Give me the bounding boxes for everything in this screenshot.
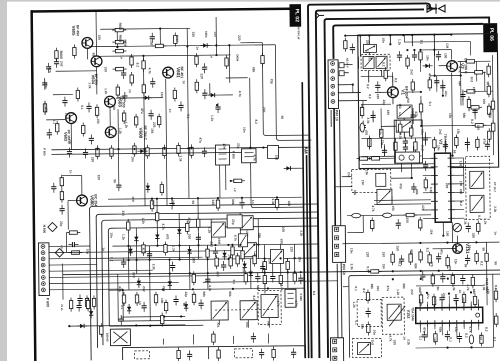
wire: [206, 245, 208, 289]
capacitor: [221, 261, 226, 271]
wire: [412, 108, 414, 124]
capacitor: [375, 81, 380, 91]
svg-text:47u: 47u: [59, 245, 63, 251]
junction: [241, 197, 243, 199]
svg-text:56: 56: [482, 247, 486, 251]
value label: [202, 292, 206, 298]
wire: [426, 302, 428, 304]
wire: [63, 270, 500, 275]
junction: [448, 293, 450, 295]
svg-text:C604: C604: [204, 31, 208, 38]
svg-text:470: 470: [44, 107, 48, 113]
svg-text:330: 330: [68, 139, 72, 145]
inductor: [469, 335, 473, 344]
svg-text:68k: 68k: [231, 199, 235, 205]
value label: [456, 129, 460, 135]
value label: [109, 232, 113, 238]
wire: [52, 152, 242, 154]
value label: [280, 116, 284, 120]
wire: [477, 299, 479, 303]
junction: [227, 258, 229, 260]
capacitor: [215, 103, 220, 113]
junction: [168, 258, 170, 260]
wire: [403, 132, 405, 138]
svg-text:8.2: 8.2: [470, 119, 474, 124]
wire: [121, 315, 185, 318]
value label: [121, 210, 125, 216]
value label: [367, 56, 371, 62]
junction: [163, 316, 165, 318]
svg-text:220: 220: [152, 122, 156, 128]
capacitor: [196, 233, 201, 243]
resistor: [177, 347, 181, 361]
filter F601: [241, 149, 256, 163]
tunable coil: [240, 301, 257, 320]
value label: [425, 248, 429, 253]
value label: [200, 74, 204, 80]
wire: [421, 124, 493, 127]
value label: [362, 288, 366, 293]
value label: [425, 55, 429, 61]
junction: [420, 91, 422, 93]
wire: [451, 222, 453, 242]
junction: [368, 34, 370, 36]
resistor: [150, 198, 154, 212]
connector PL06: [483, 23, 497, 52]
svg-text:1.2k: 1.2k: [121, 234, 125, 240]
resistor R605: [112, 40, 126, 44]
tunable coil: [240, 216, 253, 230]
value label: [406, 339, 410, 345]
svg-text:15k: 15k: [456, 129, 460, 135]
junction: [433, 49, 435, 51]
value label: [160, 92, 164, 98]
capacitor: [403, 137, 408, 147]
label V2: [460, 63, 465, 69]
resistor: [473, 293, 477, 307]
wire: [423, 209, 431, 211]
value label: [110, 257, 114, 262]
svg-text:1.2k: 1.2k: [207, 227, 211, 233]
wire: [368, 35, 370, 54]
svg-text:220: 220: [97, 175, 101, 181]
transistor V603: [104, 96, 115, 107]
svg-text:100: 100: [281, 227, 285, 233]
svg-text:8.2: 8.2: [459, 201, 463, 206]
capacitor: [440, 82, 445, 92]
svg-text:68k: 68k: [252, 67, 256, 73]
junction: [250, 272, 252, 274]
value label: [187, 217, 191, 223]
svg-text:470: 470: [279, 239, 283, 245]
svg-text:AT1: AT1: [216, 322, 220, 328]
wire: [109, 107, 111, 126]
resistor: [472, 124, 486, 128]
label AO1: [245, 322, 249, 328]
resistor: [455, 135, 459, 149]
svg-text:220: 220: [200, 74, 204, 80]
value label: [289, 247, 293, 253]
value label: [152, 264, 156, 270]
svg-text:10n: 10n: [109, 232, 113, 238]
op-amp U1 IC V3 TBA570A: [431, 153, 456, 222]
value label: [492, 337, 496, 342]
resistor: [494, 313, 498, 327]
resistor: [155, 210, 159, 224]
wire: [49, 251, 244, 253]
wire: [84, 45, 275, 47]
value label: [429, 229, 433, 235]
value label: [161, 223, 165, 229]
resistor: [160, 182, 164, 196]
junction: [187, 147, 189, 149]
value label: [210, 115, 214, 121]
wire bus AM a: [302, 82, 305, 358]
antenna FM dipole: [427, 4, 445, 14]
value label: [410, 249, 414, 255]
resistor: [192, 291, 196, 305]
svg-text:330: 330: [386, 110, 390, 116]
label V152: [406, 310, 410, 319]
svg-text:2n2: 2n2: [370, 340, 374, 346]
resistor: [419, 249, 423, 263]
scan edge left: [0, 0, 7, 361]
junction: [392, 270, 394, 272]
resistor: [96, 145, 100, 159]
junction: [169, 272, 171, 274]
svg-text:150: 150: [104, 67, 108, 73]
svg-text:68k: 68k: [472, 289, 476, 295]
wire: [95, 55, 230, 56]
junction: [171, 197, 173, 199]
value label: [494, 261, 498, 265]
svg-text:10n: 10n: [372, 330, 376, 336]
wire: [492, 55, 493, 155]
svg-text:4.7k: 4.7k: [208, 285, 212, 291]
junction: [419, 242, 421, 244]
shield box: [466, 156, 491, 219]
label V603: [117, 96, 122, 107]
value label: [242, 267, 246, 273]
resistor: [116, 84, 120, 98]
svg-text:470: 470: [165, 234, 169, 240]
capacitor: [423, 161, 428, 171]
junction: [426, 292, 428, 294]
value label: [148, 68, 152, 74]
resistor: [394, 139, 398, 153]
svg-text:P/N 50: P/N 50: [342, 264, 346, 275]
wire: [49, 264, 96, 266]
svg-text:4.7k: 4.7k: [118, 286, 122, 292]
value label: [198, 137, 202, 143]
box F606: [267, 145, 278, 158]
wire: [463, 297, 465, 303]
value label: [420, 145, 424, 151]
value label: [467, 245, 471, 251]
resistor: [217, 347, 221, 361]
op-amp U2 IC V152 TDA1046: [416, 303, 483, 327]
wire: [392, 72, 394, 82]
junction: [413, 49, 415, 51]
junction: [151, 198, 153, 200]
capacitor: [361, 122, 366, 132]
inductor: [352, 213, 361, 217]
label V680: [90, 195, 95, 206]
wire: [225, 165, 227, 190]
wire: [187, 148, 190, 198]
junction: [68, 325, 70, 327]
wire: [423, 157, 431, 159]
svg-text:3.3k: 3.3k: [271, 198, 275, 204]
wire: [456, 327, 458, 338]
value label: [252, 67, 256, 73]
value label: [482, 99, 486, 105]
svg-text:2n2: 2n2: [470, 77, 474, 83]
junction: [143, 148, 145, 150]
svg-text:8.2: 8.2: [110, 257, 114, 262]
wire: [463, 327, 465, 329]
wire: [455, 157, 464, 159]
wire bus AM b: [307, 155, 309, 358]
wire: [109, 324, 203, 327]
value label: [171, 200, 175, 206]
resistor: [434, 331, 438, 345]
svg-text:15k: 15k: [365, 170, 369, 176]
svg-text:150: 150: [395, 245, 399, 251]
value label: [131, 196, 135, 202]
svg-text:56: 56: [486, 81, 490, 85]
wire: [455, 191, 464, 193]
svg-text:0.1: 0.1: [366, 266, 370, 271]
value label: [253, 155, 257, 161]
diode: [134, 234, 139, 244]
value label: [452, 284, 456, 290]
wire signal bus 1: [90, 204, 320, 360]
value label: [207, 227, 211, 233]
capacitor: [205, 275, 210, 285]
value label: [280, 284, 284, 290]
svg-text:220: 220: [209, 241, 213, 247]
wire: [361, 137, 431, 140]
svg-text:PL 02: PL 02: [294, 9, 300, 23]
wire: [433, 35, 435, 56]
svg-text:22p: 22p: [184, 292, 188, 298]
wire: [414, 138, 416, 140]
svg-text:22p: 22p: [270, 79, 274, 85]
wire: [338, 99, 367, 101]
resistor: [491, 120, 495, 134]
value label: [276, 300, 280, 306]
value label: [231, 219, 235, 225]
label L5: [398, 112, 402, 116]
svg-text:0.1: 0.1: [354, 320, 358, 325]
svg-text:10n: 10n: [467, 245, 471, 251]
value label: [142, 286, 146, 292]
svg-text:R600: R600: [59, 51, 63, 59]
resistor: [369, 157, 383, 161]
svg-text:220: 220: [459, 189, 463, 195]
wire: [49, 270, 152, 271]
value label: [402, 283, 406, 289]
value label: [402, 336, 406, 340]
svg-text:150: 150: [472, 87, 476, 93]
capacitor: [173, 295, 178, 305]
value label: [426, 293, 430, 299]
capacitor: [141, 302, 146, 312]
wire: [279, 244, 281, 272]
svg-text:3.3k: 3.3k: [152, 264, 156, 270]
value label: [152, 122, 156, 128]
wire: [392, 76, 394, 86]
junction: [293, 257, 295, 259]
resistor: [186, 220, 190, 234]
wire: [188, 245, 190, 289]
junction: [128, 259, 130, 261]
svg-text:68k: 68k: [91, 53, 95, 59]
wire: [456, 301, 458, 304]
wire: [381, 70, 383, 76]
wire: [263, 245, 266, 294]
FM tuner shield box: [358, 34, 499, 169]
wire: [411, 35, 413, 46]
wire: [380, 108, 382, 126]
diode: [222, 250, 227, 260]
label R605: [118, 35, 122, 43]
connector P/N 10: [328, 60, 339, 109]
value label: [399, 183, 403, 189]
junction: [96, 148, 98, 150]
capacitor: [440, 273, 445, 283]
label C28: [445, 43, 449, 49]
wire: [468, 97, 470, 111]
value label: [382, 100, 386, 106]
svg-text:0.1: 0.1: [120, 305, 124, 310]
svg-text:22p: 22p: [59, 221, 63, 227]
resistor: [424, 177, 428, 191]
capacitor: [59, 205, 64, 215]
resistor: [293, 270, 297, 284]
audio box divider: [208, 347, 210, 359]
svg-text:15k: 15k: [382, 264, 386, 270]
junction: [412, 155, 414, 157]
wire: [362, 101, 364, 115]
capacitor: [62, 97, 67, 107]
wire: [441, 327, 443, 335]
svg-text:330: 330: [191, 32, 195, 38]
wire: [389, 35, 391, 44]
wire: [455, 183, 464, 185]
antenna AM rod: [316, 12, 325, 19]
svg-text:10n: 10n: [425, 55, 429, 61]
value label: [418, 336, 422, 341]
value label: [421, 205, 425, 211]
capacitor: [465, 138, 470, 148]
value label: [141, 248, 145, 254]
wire: [380, 140, 382, 148]
resistor: [360, 105, 364, 119]
value label: [44, 83, 48, 89]
svg-text:220: 220: [376, 94, 380, 100]
wire: [69, 325, 185, 326]
junction: [460, 74, 462, 76]
tunable coil: [387, 304, 401, 320]
capacitor: [83, 148, 88, 158]
value label: [382, 264, 386, 270]
coil box pair: [395, 152, 419, 163]
svg-text:22p: 22p: [236, 143, 240, 149]
resistor: [122, 292, 126, 306]
value label: [459, 181, 463, 187]
junction: [446, 242, 448, 244]
value label: [464, 264, 468, 268]
wire: [109, 258, 319, 260]
value label: [448, 113, 452, 119]
svg-text:330: 330: [242, 267, 246, 273]
crystal filter X600: [110, 329, 130, 346]
wire signal bus 4: [108, 226, 319, 326]
wire: [381, 125, 396, 127]
svg-text:150: 150: [382, 252, 386, 258]
label P 600: [46, 298, 50, 307]
wire: [275, 44, 311, 140]
resistor: [464, 60, 478, 64]
wire: [156, 199, 158, 246]
value label: [121, 234, 125, 240]
resistor: [76, 87, 80, 101]
svg-text:AB 10 V: AB 10 V: [346, 58, 350, 68]
wire: [135, 228, 137, 274]
svg-text:1n: 1n: [493, 231, 497, 235]
value label: [378, 130, 382, 136]
wire: [401, 163, 403, 172]
junction: [222, 147, 224, 149]
svg-text:D604: D604: [235, 54, 239, 61]
resistor: [174, 32, 178, 46]
value label: [101, 247, 105, 251]
wire: [470, 301, 472, 303]
svg-text:100: 100: [192, 258, 196, 264]
value label: [458, 66, 462, 72]
shield box: [352, 338, 381, 357]
resistor: [152, 44, 166, 48]
resistor: [134, 114, 138, 128]
svg-text:10n: 10n: [64, 113, 68, 119]
wire: [342, 176, 352, 178]
resistor: [229, 255, 233, 269]
value label: [462, 113, 466, 119]
diode: [423, 64, 433, 69]
resistor: [472, 71, 486, 75]
wire: [362, 216, 364, 233]
capacitor: [121, 69, 126, 79]
wire: [250, 77, 303, 208]
shield box: [235, 349, 253, 358]
resistor: [433, 137, 437, 151]
value label: [386, 286, 390, 292]
wire: [412, 146, 414, 156]
value label: [118, 128, 122, 134]
svg-text:10n: 10n: [85, 249, 89, 255]
resistor: [391, 251, 395, 265]
svg-text:MW SW LW: MW SW LW: [297, 25, 301, 40]
svg-text:3.3k: 3.3k: [44, 83, 48, 89]
wire: [391, 177, 412, 179]
junction: [186, 45, 188, 47]
resistor: [69, 298, 73, 312]
wire: [343, 286, 349, 288]
shield box: [258, 290, 281, 324]
svg-text:R602: R602: [118, 23, 122, 31]
